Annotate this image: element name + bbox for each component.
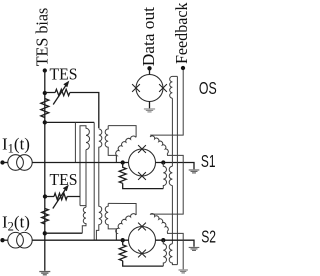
resistor Rb1 xyxy=(41,99,49,118)
svg-text:Feedback: Feedback xyxy=(172,2,191,64)
arrow RT2 xyxy=(53,185,69,209)
node A2 xyxy=(43,194,47,198)
node S2 right xyxy=(161,238,165,242)
transformer T2 secondary xyxy=(105,204,116,241)
output transformer S2 primary xyxy=(163,240,166,266)
inductor L1 xyxy=(80,126,90,207)
wire Data out stem xyxy=(149,68,151,74)
net label Feedback xyxy=(172,2,191,64)
ground feedback xyxy=(179,269,188,273)
ground OS xyxy=(144,108,155,112)
current source I1 xyxy=(8,155,32,171)
net label Data out xyxy=(139,7,158,67)
svg-text:I2(t): I2(t) xyxy=(2,212,30,233)
wire B2 to L2 box xyxy=(45,232,83,234)
transformer T2 primary xyxy=(96,163,102,241)
junction JJ bottom S1 xyxy=(138,172,146,180)
wire S1 feedback out xyxy=(150,154,183,215)
terminal Feedback xyxy=(181,66,185,70)
OS input coil xyxy=(170,76,178,98)
svg-text:Data out: Data out xyxy=(139,7,158,67)
S1 feedback coupling coil xyxy=(150,136,168,154)
S2 feedback coupling coil xyxy=(150,214,168,232)
terminal Data out xyxy=(147,66,151,70)
inductor L2 xyxy=(80,206,86,234)
svg-text:S1: S1 xyxy=(201,151,216,171)
node B1 xyxy=(43,120,47,124)
SQUID OS xyxy=(136,75,163,102)
junction JJ bottom S2 xyxy=(138,250,146,258)
wire OS ground stem xyxy=(149,102,151,109)
wire S1 input coil top xyxy=(108,126,136,138)
wire feedback to S1 xyxy=(150,68,183,135)
wire I2 lead xyxy=(3,239,8,241)
svg-text:S2: S2 xyxy=(201,227,216,247)
svg-text:TES: TES xyxy=(50,65,78,84)
S1 input coupling coil xyxy=(116,136,136,162)
output transformer S2 secondary (summing loop) xyxy=(169,244,177,265)
wire summing bus left xyxy=(171,98,173,244)
label TES (channel 1) xyxy=(50,65,78,84)
node S1 left xyxy=(121,160,125,164)
resistor Rb2 xyxy=(42,209,49,225)
wire S2 feedback out xyxy=(167,231,183,269)
junction JJ left OS xyxy=(132,84,140,92)
terminal I2 xyxy=(0,238,4,242)
label S1 xyxy=(201,151,216,171)
svg-text:OS: OS xyxy=(199,78,217,98)
node S2 left xyxy=(121,238,125,242)
transformer T1 primary xyxy=(99,129,102,163)
TES thermistor RT2 xyxy=(54,193,67,199)
output transformer S1 secondary (summing loop) xyxy=(169,166,172,185)
wire summing bus return xyxy=(176,76,178,264)
label S2 xyxy=(201,227,216,247)
label I1(t) xyxy=(2,135,30,156)
TES thermistor RT1 xyxy=(55,89,70,95)
wire I2 rail xyxy=(32,240,194,247)
S2 input coupling coil xyxy=(116,214,136,240)
svg-text:TES bias: TES bias xyxy=(33,8,52,67)
TES bias terminal xyxy=(43,68,47,72)
wire TES2 branch xyxy=(45,196,80,198)
label TES (channel 2) xyxy=(50,170,78,189)
output transformer S1 primary xyxy=(163,163,166,189)
label OS xyxy=(199,78,217,98)
current source I2 xyxy=(8,232,32,248)
wire TES1 branch xyxy=(45,93,99,129)
junction JJ top S1 xyxy=(138,145,146,153)
node A1 xyxy=(43,91,47,95)
shunt resistor S1 xyxy=(119,163,163,189)
wire I1 rail xyxy=(32,163,194,170)
wire S2 input coil top xyxy=(108,203,136,215)
wire B1 to L1 box xyxy=(45,121,94,123)
transformer T1 secondary xyxy=(105,126,116,163)
net label TES bias xyxy=(33,8,52,67)
terminal I1 xyxy=(0,160,4,164)
node B2 xyxy=(43,231,47,235)
node S1 right xyxy=(161,160,165,164)
label I2(t) xyxy=(2,212,30,233)
svg-text:I1(t): I1(t) xyxy=(2,135,30,156)
junction JJ top S2 xyxy=(138,223,146,231)
SQUID S2 xyxy=(129,227,156,254)
TES bias wire (vertical bus) xyxy=(44,71,46,271)
svg-text:TES: TES xyxy=(50,170,78,189)
ground S1 rail xyxy=(189,169,200,173)
junction JJ right OS xyxy=(159,84,167,92)
SQUID S1 xyxy=(129,149,156,176)
arrow RT1 xyxy=(53,81,69,105)
ground S2 rail xyxy=(189,247,200,251)
wire I1 lead xyxy=(3,162,8,164)
shunt resistor S2 xyxy=(119,240,163,266)
ground TES bias xyxy=(39,271,50,276)
inductor L1 box xyxy=(75,122,94,240)
